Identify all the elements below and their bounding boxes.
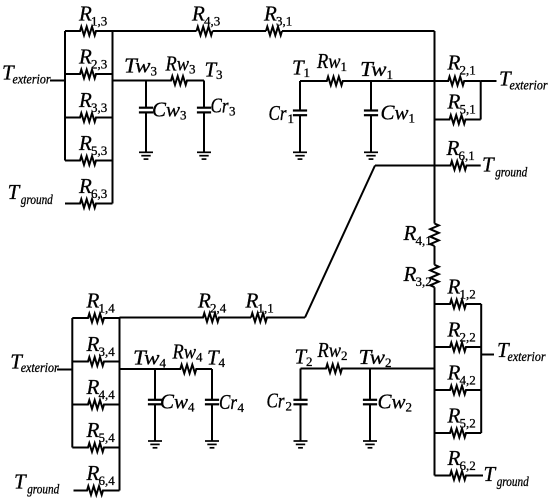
svg-text:3,4: 3,4 xyxy=(99,344,116,359)
svg-text:2: 2 xyxy=(286,399,293,414)
wire right bus block2 xyxy=(480,304,482,433)
svg-text:3: 3 xyxy=(180,108,187,123)
svg-text:2,1: 2,1 xyxy=(460,63,476,78)
svg-text:5,2: 5,2 xyxy=(460,416,476,431)
svg-text:R: R xyxy=(78,45,92,69)
svg-text:4: 4 xyxy=(219,355,226,370)
capacitor Cw3 xyxy=(145,81,147,108)
svg-text:R: R xyxy=(447,361,461,385)
resistor R5,1 xyxy=(435,115,481,124)
resistor R1,3 xyxy=(65,27,113,36)
ground (Cw1) xyxy=(364,151,378,153)
svg-text:5,1: 5,1 xyxy=(460,102,476,117)
svg-text:R: R xyxy=(191,2,205,26)
svg-text:exterior: exterior xyxy=(510,77,549,92)
resistor R1,1 xyxy=(251,313,305,322)
resistor Rw4 xyxy=(155,365,212,374)
svg-text:3: 3 xyxy=(216,67,223,82)
wire R2,1 to T_exterior xyxy=(481,80,497,82)
resistor R4,3 xyxy=(197,27,213,36)
wire diagonal xyxy=(305,166,375,318)
resistor R3,3 xyxy=(65,113,113,122)
svg-text:6,4: 6,4 xyxy=(99,473,116,488)
svg-text:5,4: 5,4 xyxy=(99,430,116,445)
resistor R2,1 xyxy=(435,77,481,86)
svg-text:4: 4 xyxy=(196,350,203,365)
wire main bus lower xyxy=(434,287,436,475)
capacitor Cw2 xyxy=(369,369,371,400)
svg-text:Tw: Tw xyxy=(360,57,387,81)
svg-text:ground: ground xyxy=(497,474,529,489)
capacitor Cr1 xyxy=(299,81,301,111)
svg-text:R: R xyxy=(447,446,461,470)
capacitor Cw1 xyxy=(370,81,372,111)
svg-text:ground: ground xyxy=(495,164,527,179)
resistor R6,1 xyxy=(435,161,481,170)
wire Tw4 row xyxy=(120,368,156,370)
svg-text:Cw: Cw xyxy=(378,390,406,414)
svg-text:6,2: 6,2 xyxy=(460,458,476,473)
capacitor Cr2 xyxy=(300,369,302,400)
svg-text:R: R xyxy=(86,375,100,399)
svg-text:6,3: 6,3 xyxy=(91,186,107,201)
resistor R4,4 xyxy=(72,400,119,409)
resistor R6,4 xyxy=(74,486,120,495)
svg-text:Cr: Cr xyxy=(267,389,286,413)
svg-text:R: R xyxy=(86,418,100,442)
svg-text:Rw: Rw xyxy=(172,340,196,364)
resistor R4,1 xyxy=(430,224,439,247)
svg-text:R: R xyxy=(263,2,277,26)
svg-text:R: R xyxy=(197,289,211,313)
svg-text:2,3: 2,3 xyxy=(91,57,107,72)
ground (Cr4) xyxy=(205,440,219,442)
svg-text:3: 3 xyxy=(151,64,158,79)
svg-text:R: R xyxy=(78,2,92,26)
svg-text:3: 3 xyxy=(229,104,236,119)
wire R6,1 row left xyxy=(375,165,435,167)
svg-text:R: R xyxy=(403,262,417,286)
svg-text:Cw: Cw xyxy=(381,101,409,125)
resistor R1,2 xyxy=(435,300,482,309)
wire right bus block4 xyxy=(119,318,121,491)
wire stub bus E xyxy=(480,81,482,120)
wire top row right xyxy=(282,30,435,32)
svg-text:2,2: 2,2 xyxy=(460,330,476,345)
svg-text:1,3: 1,3 xyxy=(91,14,107,29)
svg-text:1: 1 xyxy=(304,65,311,80)
svg-text:3,3: 3,3 xyxy=(91,100,107,115)
resistor R2,2 xyxy=(435,343,482,352)
svg-text:4,1: 4,1 xyxy=(416,233,432,248)
svg-text:1,4: 1,4 xyxy=(99,301,116,316)
wire top row left xyxy=(113,30,197,32)
resistor R6,3 xyxy=(65,199,113,208)
svg-text:4,4: 4,4 xyxy=(99,387,116,402)
capacitor Cr3 xyxy=(203,81,205,108)
capacitor Cw4 xyxy=(154,369,156,400)
svg-text:Rw: Rw xyxy=(165,52,189,76)
resistor R5,2 xyxy=(435,429,482,438)
resistor R5,4 xyxy=(72,443,119,452)
ground (Cw2) xyxy=(363,440,377,442)
capacitor Cr4 xyxy=(211,369,213,400)
svg-text:R: R xyxy=(86,332,100,356)
svg-text:exterior: exterior xyxy=(508,349,547,364)
svg-text:R: R xyxy=(86,289,100,313)
wire between R4,1 and R3,2 xyxy=(434,246,436,265)
svg-text:R: R xyxy=(78,88,92,112)
wire Tw2 to bus xyxy=(370,368,435,370)
resistor R3,2 xyxy=(430,265,439,287)
resistor R2,3 xyxy=(65,70,113,79)
svg-text:2,4: 2,4 xyxy=(210,301,227,316)
resistor R2,4 xyxy=(120,313,252,322)
svg-text:6,1: 6,1 xyxy=(459,148,475,163)
svg-text:Rw: Rw xyxy=(317,338,341,362)
svg-text:Cw: Cw xyxy=(160,390,188,414)
svg-text:1: 1 xyxy=(387,67,394,82)
svg-text:T: T xyxy=(8,180,21,204)
wire main bus upper xyxy=(434,31,436,224)
wire right bus block3 xyxy=(112,31,114,204)
svg-text:1,1: 1,1 xyxy=(258,301,274,316)
svg-text:Tw: Tw xyxy=(133,346,160,370)
svg-text:T: T xyxy=(14,470,27,494)
svg-text:T: T xyxy=(484,462,497,486)
wire left bus block4 xyxy=(71,318,73,448)
resistor Rw1 xyxy=(300,77,371,86)
resistor R5,3 xyxy=(65,156,113,165)
svg-text:4: 4 xyxy=(188,400,195,415)
svg-text:Cw: Cw xyxy=(152,98,180,122)
svg-text:R: R xyxy=(78,174,92,198)
node T_exterior (right, block2) xyxy=(481,354,494,356)
svg-text:exterior: exterior xyxy=(13,72,52,87)
svg-text:1: 1 xyxy=(288,111,295,126)
svg-text:Cr: Cr xyxy=(211,94,230,118)
resistor Rw3 xyxy=(146,76,204,85)
svg-text:4,2: 4,2 xyxy=(460,373,476,388)
svg-text:R: R xyxy=(447,51,461,75)
resistor R3,1 xyxy=(266,27,282,36)
ground (Cr3) xyxy=(197,151,211,153)
svg-text:Tw: Tw xyxy=(124,54,151,78)
wire Tw3 row xyxy=(113,80,147,82)
wire Tw1 to bus xyxy=(371,80,435,82)
svg-text:R: R xyxy=(447,318,461,342)
svg-text:ground: ground xyxy=(27,481,59,496)
svg-text:Tw: Tw xyxy=(359,345,386,369)
svg-text:R: R xyxy=(86,461,100,485)
svg-text:3,1: 3,1 xyxy=(276,14,292,29)
ground (Cw3) xyxy=(139,151,153,153)
svg-text:5,3: 5,3 xyxy=(91,143,107,158)
svg-text:2: 2 xyxy=(306,354,313,369)
resistor R1,4 xyxy=(72,314,119,323)
resistor Rw2 xyxy=(301,364,371,373)
svg-text:2: 2 xyxy=(406,400,413,415)
svg-text:R: R xyxy=(447,404,461,428)
svg-text:4: 4 xyxy=(238,400,245,415)
svg-text:R: R xyxy=(245,289,259,313)
svg-text:2: 2 xyxy=(341,348,348,363)
ground (Cr2) xyxy=(294,440,308,442)
resistor R6,2 xyxy=(435,471,484,480)
wire left bus block3 xyxy=(64,31,66,161)
resistor R4,2 xyxy=(435,386,482,395)
svg-text:1,2: 1,2 xyxy=(460,287,476,302)
svg-text:Cr: Cr xyxy=(219,390,238,414)
svg-text:R: R xyxy=(403,221,417,245)
svg-text:R: R xyxy=(447,275,461,299)
svg-text:T: T xyxy=(482,153,495,177)
svg-text:Cr: Cr xyxy=(269,101,288,125)
svg-text:R: R xyxy=(78,131,92,155)
wire top row mid xyxy=(213,30,267,32)
resistor R3,4 xyxy=(72,357,119,366)
svg-text:3,2: 3,2 xyxy=(416,274,432,289)
svg-text:1: 1 xyxy=(341,59,348,74)
ground (Cw4) xyxy=(148,440,162,442)
svg-text:Rw: Rw xyxy=(316,49,340,73)
svg-text:R: R xyxy=(447,90,461,114)
svg-text:3: 3 xyxy=(189,62,196,77)
svg-text:exterior: exterior xyxy=(21,360,60,375)
svg-text:1: 1 xyxy=(409,111,416,126)
svg-text:4,3: 4,3 xyxy=(204,14,220,29)
svg-text:ground: ground xyxy=(21,192,53,207)
svg-text:R: R xyxy=(446,136,460,160)
ground (Cr1) xyxy=(293,151,307,153)
